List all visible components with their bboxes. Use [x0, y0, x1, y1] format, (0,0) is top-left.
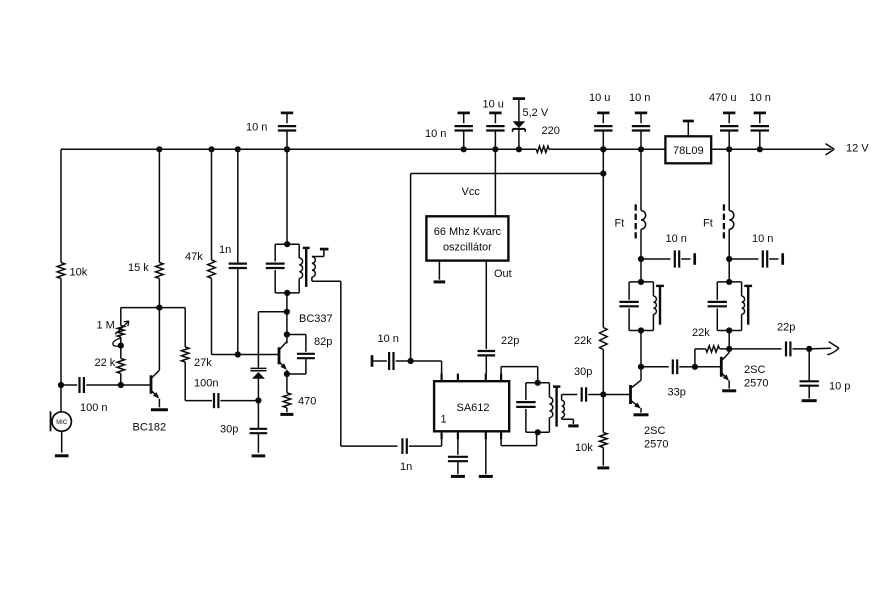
svg-text:1 M: 1 M — [97, 320, 115, 332]
wire rail right section with arrow — [711, 144, 834, 155]
label 22 k — [95, 357, 116, 369]
pin stubs SA612 top — [442, 374, 502, 382]
tank T4 (final collector) — [708, 259, 753, 334]
svg-text:oszcillátor: oszcillátor — [443, 241, 492, 253]
varicap diode D1 — [250, 368, 266, 400]
svg-text:10 n: 10 n — [752, 233, 773, 245]
wire base driver — [603, 394, 630, 396]
label 10 u — [589, 92, 610, 104]
wire T1 secondary to 1n — [341, 281, 398, 446]
label 30p — [574, 366, 592, 378]
wire Vcc riser — [411, 174, 604, 362]
label Ft — [703, 218, 713, 230]
node (Vcc feed / SA612 in) — [408, 358, 414, 364]
ground (T2 secondary) — [568, 424, 578, 427]
label 100 n — [80, 402, 108, 414]
svg-text:1: 1 — [441, 413, 447, 425]
capacitor (SA612 pin2 bypass) — [448, 439, 468, 474]
label 10 n — [752, 233, 773, 245]
transformer secondary T2 — [562, 395, 578, 424]
capacitor 33p — [641, 359, 695, 374]
transformer core T2 — [553, 387, 560, 427]
capacitor 10u (rail bypass, x=495) — [486, 113, 504, 152]
svg-text:470: 470 — [298, 395, 316, 407]
capacitor 470u (rail bypass, x=729) — [720, 113, 738, 152]
tank T3 (driver collector) — [619, 259, 664, 334]
svg-text:10 u: 10 u — [589, 92, 610, 104]
label 10 u — [483, 99, 504, 111]
transformer core T1 — [303, 248, 310, 287]
svg-text:10 n: 10 n — [629, 92, 650, 104]
node (33p / 22k / base) — [692, 364, 698, 370]
terminal (10n input) — [371, 355, 374, 367]
label BC182 — [133, 422, 167, 434]
ground (pin2) — [451, 475, 465, 478]
svg-text:10 n: 10 n — [378, 333, 399, 345]
capacitor 10 p (antenna load) — [800, 349, 819, 399]
capacitor 100n (mic coupling) — [61, 377, 121, 393]
node (varicap/100n/30p) — [255, 397, 261, 403]
wire rail middle section — [549, 148, 665, 150]
node (final collector) — [726, 346, 732, 352]
svg-text:82p: 82p — [314, 336, 332, 348]
label 10k — [575, 442, 593, 454]
resistor 10k (divider) — [600, 395, 608, 448]
label 10 n — [629, 92, 650, 104]
capacitor 100n (to varicap) — [185, 393, 258, 408]
svg-text:22k: 22k — [574, 335, 592, 347]
resistor 15 k — [156, 263, 164, 279]
svg-text:Vcc: Vcc — [462, 186, 481, 198]
wire T4 to collector — [728, 331, 730, 349]
svg-text:10k: 10k — [70, 266, 88, 278]
node (driver collector) — [638, 364, 644, 370]
capacitor 22p (osc to SA612) — [478, 351, 496, 374]
wire collector to varicap — [258, 312, 286, 368]
pin stubs SA612 bottom — [442, 431, 502, 439]
resistor 470 (emitter) — [283, 374, 291, 412]
label 33p — [668, 387, 686, 399]
label 82p — [314, 336, 332, 348]
transistor Q4 2SC 2570 — [721, 349, 729, 389]
svg-text:27k: 27k — [194, 357, 212, 369]
svg-text:10k: 10k — [575, 442, 593, 454]
regulator U2 78L09 — [665, 121, 711, 163]
capacitor 10u (rail bypass, x=603) — [594, 113, 612, 152]
node (antenna) — [806, 346, 812, 352]
oscillator U1 66 Mhz Kvarc — [426, 216, 508, 260]
wire SA612 out bottom — [501, 432, 536, 445]
svg-text:470 u: 470 u — [709, 92, 737, 104]
svg-text:100n: 100n — [194, 378, 218, 390]
svg-text:5,2 V: 5,2 V — [523, 107, 549, 119]
ground (driver emitter) — [634, 413, 649, 416]
resistor 47k — [208, 149, 216, 278]
label 10k — [70, 266, 88, 278]
ground (BC182 emitter) — [151, 408, 168, 411]
capacitor 10n (rail bypass, x=760) — [751, 113, 769, 152]
svg-text:1n: 1n — [219, 244, 231, 256]
wire rail to tank T1 — [284, 146, 290, 247]
label 5,2 V — [523, 107, 549, 119]
zener diode 5,2V — [513, 99, 526, 153]
wire 12V supply rail left section — [61, 148, 536, 150]
capacitor 30p (to driver base) — [582, 387, 604, 401]
node (T2 bottom) — [535, 429, 541, 435]
ground (pin3) — [479, 439, 493, 476]
wire base BC182 — [121, 384, 151, 386]
capacitor 10n (driver bypass) — [641, 250, 695, 267]
svg-text:22 k: 22 k — [95, 357, 116, 369]
svg-text:78L09: 78L09 — [673, 145, 704, 157]
transistor Q3 2SC 2570 — [631, 367, 642, 413]
ground (470) — [280, 413, 293, 416]
label 27k — [194, 357, 212, 369]
tank T2 (cap + coil) — [516, 383, 553, 433]
svg-text:66 Mhz Kvarc: 66 Mhz Kvarc — [434, 226, 502, 238]
svg-text:2SC: 2SC — [744, 364, 765, 376]
node (pot wiper) — [118, 343, 124, 349]
capacitor 30p (to ground) — [250, 401, 268, 453]
label 220 — [542, 125, 560, 137]
svg-text:100 n: 100 n — [80, 402, 108, 414]
label 10 p — [829, 381, 850, 393]
capacitor 10n (RF in) — [372, 352, 411, 370]
wire collector row — [121, 305, 185, 311]
capacitor 10n (rail bypass, x=464) — [455, 113, 473, 152]
label 470 — [298, 395, 316, 407]
ground (final emitter) — [722, 389, 736, 392]
svg-text:10 n: 10 n — [750, 92, 771, 104]
label 22k — [692, 327, 710, 339]
ground (30p) — [252, 454, 266, 457]
label Out — [494, 268, 512, 280]
svg-text:BC337: BC337 — [299, 313, 333, 325]
inductor Ft (final feed) — [724, 149, 734, 262]
label 10 n — [425, 128, 446, 140]
svg-text:15 k: 15 k — [128, 262, 149, 274]
label 22p — [777, 321, 795, 333]
label 1n — [219, 244, 231, 256]
label 10 n — [378, 333, 399, 345]
label 1 M — [97, 320, 115, 332]
label 47k — [185, 251, 203, 263]
antenna arrow — [809, 342, 839, 355]
svg-text:47k: 47k — [185, 251, 203, 263]
label 470 u — [709, 92, 737, 104]
svg-text:22p: 22p — [777, 321, 795, 333]
label 10 n — [750, 92, 771, 104]
capacitor 22p (antenna coupling) — [729, 341, 809, 356]
node (Vcc at divider) — [600, 170, 606, 176]
svg-text:Ft: Ft — [615, 218, 625, 230]
wire 10k to mic node — [58, 279, 64, 389]
label 2SC — [744, 364, 765, 376]
node (22k/100n/base BC182) — [118, 382, 124, 388]
svg-text:10 n: 10 n — [246, 122, 267, 134]
svg-text:1n: 1n — [400, 461, 412, 473]
wire oscillator Out — [485, 261, 487, 349]
resistor 220 (series in rail) — [536, 146, 549, 152]
wire base BC337 — [238, 354, 278, 356]
label 2570 — [744, 377, 768, 389]
resistor 22 k — [117, 346, 125, 385]
resistor 22k (divider) — [600, 328, 608, 350]
label 2570 — [644, 438, 668, 450]
wire rail to oscillator Vcc pin — [494, 149, 496, 216]
svg-text:10 p: 10 p — [829, 381, 850, 393]
svg-text:22k: 22k — [692, 327, 710, 339]
wire rail to 15k — [158, 149, 160, 262]
svg-text:30p: 30p — [220, 423, 238, 435]
ground (10p) — [802, 399, 817, 402]
svg-text:220: 220 — [542, 125, 560, 137]
wire base final — [695, 366, 721, 368]
wire SA612 out top — [501, 367, 538, 383]
transistor Q2 BC337 — [279, 293, 290, 377]
ground (oscillator) — [434, 261, 446, 282]
wire 15k to collector node — [158, 279, 160, 308]
wire SA612 pin1 to 1n — [441, 439, 443, 446]
label 100n — [194, 378, 218, 390]
resistor 27k — [181, 308, 189, 401]
capacitor 10n (rail bypass, x=641) — [632, 113, 650, 152]
junction (rail/1n) — [235, 146, 241, 152]
mixer U3 SA612 — [434, 381, 509, 431]
node (T2 top) — [535, 380, 541, 386]
svg-text:22p: 22p — [501, 335, 519, 347]
svg-text:33p: 33p — [668, 387, 686, 399]
capacitor 10n (rail bypass, x=287) — [278, 113, 296, 152]
label 22k — [574, 335, 592, 347]
svg-text:10 u: 10 u — [483, 99, 504, 111]
node (driver base) — [600, 391, 606, 397]
node (BC337 base net) — [235, 351, 241, 357]
wire T3 to collector — [640, 331, 642, 367]
junction (rail/15k) — [156, 146, 162, 152]
svg-text:30p: 30p — [574, 366, 592, 378]
svg-text:SA612: SA612 — [457, 402, 490, 414]
label 2SC — [644, 425, 665, 437]
wire rail to divider — [600, 146, 606, 327]
capacitor 1n (audio to SA612) — [402, 438, 441, 454]
label 15 k — [128, 262, 149, 274]
label 10 n — [666, 233, 687, 245]
svg-text:10 n: 10 n — [425, 128, 446, 140]
label Ft — [615, 218, 625, 230]
junction (rail/47k) — [208, 146, 214, 152]
wire node to SA612 pin — [411, 361, 442, 374]
capacitor 10n (final bypass) — [729, 250, 783, 267]
wire divider mid — [602, 350, 604, 395]
label Vcc — [462, 186, 481, 198]
transistor Q1 BC182 — [151, 308, 159, 408]
label 10 n — [246, 122, 267, 134]
ground (divider) — [597, 448, 609, 468]
label 12 V — [846, 142, 869, 154]
svg-text:MIC: MIC — [56, 420, 68, 426]
svg-text:2SC: 2SC — [644, 425, 665, 437]
svg-text:2570: 2570 — [744, 377, 768, 389]
tank T1 (cap + coil) — [266, 244, 303, 293]
svg-text:12 V: 12 V — [846, 142, 869, 154]
label 1n — [400, 461, 412, 473]
wire 47k down — [212, 278, 238, 354]
resistor 10k — [57, 263, 65, 279]
transformer secondary T1 — [312, 249, 341, 281]
inductor Ft (driver feed) — [636, 149, 646, 262]
svg-text:2570: 2570 — [644, 438, 668, 450]
label 22p — [501, 335, 519, 347]
wire left column from rail — [60, 149, 62, 262]
node (tank T1 bottom) — [284, 290, 290, 296]
capacitor 82p (C-E) — [287, 335, 315, 375]
resistor 22k (feedback) — [695, 346, 729, 367]
svg-text:10 n: 10 n — [666, 233, 687, 245]
microphone MIC — [51, 385, 72, 453]
svg-text:Out: Out — [494, 268, 512, 280]
svg-text:BC182: BC182 — [133, 422, 167, 434]
potentiometer 1 M — [113, 308, 129, 347]
capacitor 1n (base filter) — [229, 149, 247, 354]
svg-text:Ft: Ft — [703, 218, 713, 230]
label BC337 — [299, 313, 333, 325]
label 30p — [220, 423, 238, 435]
ground (mic) — [55, 454, 69, 457]
